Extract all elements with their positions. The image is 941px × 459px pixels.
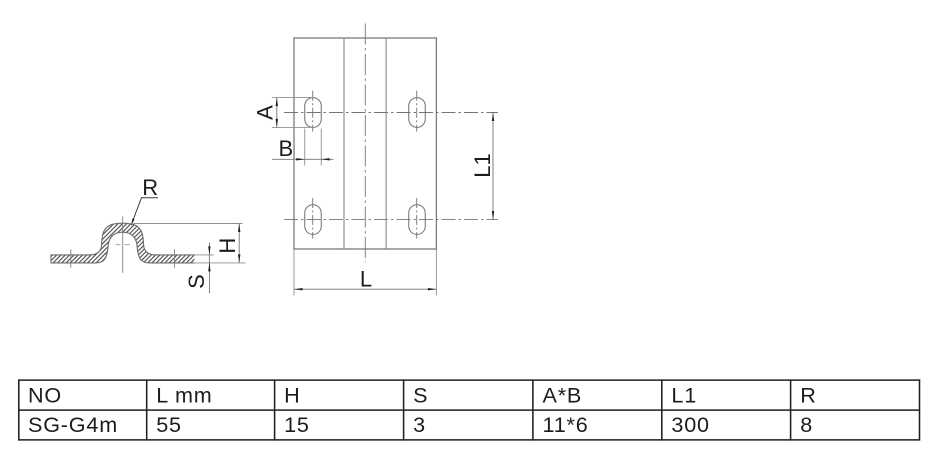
profile: right hole centerline tick <box>174 249 176 267</box>
svg-text:A*B: A*B <box>543 382 583 407</box>
svg-text:300: 300 <box>671 412 709 437</box>
slot hole bottom-right <box>409 205 426 235</box>
dimension A: dimension line with arrows <box>276 98 278 128</box>
slot hole bottom-left <box>305 205 322 235</box>
svg-text:15: 15 <box>284 412 310 437</box>
svg-text:L1: L1 <box>671 382 697 407</box>
profile: horizontal center dashes of hump <box>116 244 130 246</box>
profile: left hole centerline tick <box>70 249 72 267</box>
svg-text:3: 3 <box>413 412 426 437</box>
spec table: grid lines <box>18 379 920 440</box>
dimension H: bottom extension line <box>194 262 245 264</box>
svg-text:A: A <box>252 105 277 120</box>
centerline of upper holes <box>284 112 498 114</box>
plan view: left bend line <box>343 38 345 249</box>
dimension H: dimension line with arrows <box>238 224 240 263</box>
profile view: sheet-metal cross-section (hatched) <box>51 223 194 263</box>
plan view: vertical centerline <box>364 24 366 263</box>
svg-text:R: R <box>142 175 158 200</box>
svg-text:55: 55 <box>156 412 182 437</box>
dimension L: dimension line with arrows <box>294 288 436 290</box>
svg-text:S: S <box>184 274 209 289</box>
svg-text:H: H <box>284 382 300 407</box>
dimension H: top extension line (tangent from hump top) <box>134 223 243 225</box>
dimension B: extension lines <box>304 129 306 166</box>
svg-text:B: B <box>278 136 293 161</box>
spec table: value row text <box>28 412 813 437</box>
profile outline: outer surface <box>51 223 194 263</box>
dimension S: top extension line <box>194 254 213 256</box>
plan view: right bend line <box>385 38 387 249</box>
dimension L: extension lines <box>293 250 295 296</box>
svg-text:NO: NO <box>28 382 62 407</box>
dimension L1: dimension line with arrows <box>492 113 494 220</box>
svg-text:8: 8 <box>800 412 813 437</box>
slot hole top-right <box>409 98 426 128</box>
dimension B: dimension line with outside arrows <box>272 158 334 160</box>
svg-text:L: L <box>360 266 372 291</box>
svg-text:R: R <box>800 382 816 407</box>
dimension S: dimension line with outside arrows <box>208 243 210 294</box>
svg-text:SG-G4m: SG-G4m <box>28 412 118 437</box>
dimension A: extension lines <box>272 97 313 99</box>
svg-text:11*6: 11*6 <box>543 412 589 437</box>
slot hole top-left <box>305 98 322 128</box>
svg-text:L1: L1 <box>470 153 495 177</box>
slot vertical centerlines <box>312 91 314 132</box>
svg-text:S: S <box>413 382 428 407</box>
centerline of lower holes <box>284 219 498 221</box>
spec table: header row text <box>28 382 817 407</box>
plan view: plate outline <box>294 38 436 249</box>
svg-text:H: H <box>215 238 240 254</box>
svg-text:L mm: L mm <box>156 382 212 407</box>
profile: vertical centerline of hump <box>122 216 124 272</box>
